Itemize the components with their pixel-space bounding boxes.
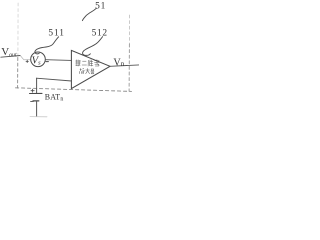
svg-text:511: 511 xyxy=(48,29,64,39)
dashed box 51 left edge faint upper part xyxy=(17,3,19,57)
dashed box 51 right edge xyxy=(128,44,130,91)
svg-text:512: 512 xyxy=(92,29,108,39)
battery minus sign xyxy=(31,100,34,102)
dashed box 51 bottom edge xyxy=(16,88,132,92)
battery plus sign xyxy=(31,89,34,92)
svg-text:Vn: Vn xyxy=(113,57,124,68)
amp label line1 第二仪表 (drawn strokes) xyxy=(75,59,99,66)
wire down to battery xyxy=(36,78,38,93)
svg-text:51: 51 xyxy=(95,2,106,12)
battery BATn plus plate xyxy=(30,92,43,94)
wire op-amp lower input xyxy=(36,78,71,81)
dashed box 51 left edge xyxy=(17,58,19,89)
svg-text:Vout: Vout xyxy=(1,46,17,58)
leader squiggle for 511 xyxy=(35,37,59,54)
battery BATn minus plate xyxy=(33,100,39,102)
node minus terminal of V1 xyxy=(46,61,48,63)
wire faint stub at bottom xyxy=(30,116,47,118)
node plus terminal of V1 xyxy=(26,60,28,62)
wire V1 to op-amp inverting input xyxy=(45,59,71,62)
wire Vout underline xyxy=(1,56,21,58)
wire battery negative lead xyxy=(36,101,38,116)
svg-text:BATn: BATn xyxy=(45,93,64,103)
wire op-amp output to Vn xyxy=(110,65,139,66)
leader squiggle for 51 xyxy=(82,8,96,20)
voltage source V1 (Vs) circle xyxy=(31,52,46,67)
leader squiggle for 512 xyxy=(83,37,103,56)
op-amp U1 triangle xyxy=(71,50,110,88)
dashed box 51 right edge faint upper part xyxy=(128,15,130,44)
amp label line2 放大器 (drawn strokes) xyxy=(79,68,94,74)
wire Vout to source plus xyxy=(20,56,30,60)
svg-text:Vs: Vs xyxy=(32,56,41,67)
